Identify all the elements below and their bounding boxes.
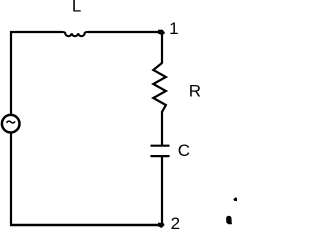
capacitor C bottom plate <box>151 155 170 157</box>
resistor R zigzag <box>153 63 166 112</box>
wire bottom horizontal <box>10 224 162 226</box>
svg-text:C: C <box>178 141 190 160</box>
node 2 junction dot <box>158 223 165 228</box>
svg-text:2: 2 <box>171 214 180 230</box>
wire left side upper segment <box>10 31 12 115</box>
node 1 junction dot <box>158 30 165 36</box>
wire top-right horizontal segment <box>88 31 161 33</box>
wire right side lower segment <box>161 157 163 225</box>
wire resistor-to-capacitor segment <box>161 112 163 146</box>
inductor L <box>61 32 89 36</box>
stray dot mark bottom-right <box>226 216 232 224</box>
wire left side lower segment <box>10 133 12 227</box>
svg-text:R: R <box>189 81 201 100</box>
AC source V circle <box>2 115 20 133</box>
svg-text:1: 1 <box>169 19 178 38</box>
capacitor C top plate <box>151 145 170 147</box>
AC source V tilde <box>7 121 15 123</box>
wire top-left horizontal segment <box>10 31 62 33</box>
wire right side upper segment <box>161 31 163 64</box>
stray tick mark bottom-right <box>233 197 237 201</box>
svg-text:L: L <box>72 0 81 16</box>
